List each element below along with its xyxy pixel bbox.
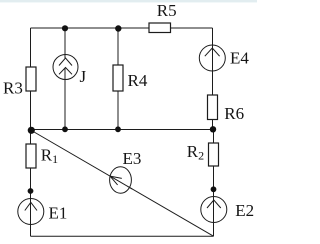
svg-text:E1: E1 [49,203,68,222]
resistor R1 [26,144,36,168]
svg-text:E2: E2 [235,201,254,220]
wire left lower branch [30,130,32,236]
wire left side [30,28,32,130]
wire right side [212,28,214,130]
source E3 [110,167,133,193]
resistor R5 [149,23,171,33]
wire top bus [31,27,213,29]
resistor R6 [208,95,218,120]
node R4 bottom junction [115,126,121,132]
svg-text:R6: R6 [224,104,244,123]
node A left bus junction [28,127,35,134]
svg-text:E4: E4 [230,49,249,68]
node J bottom junction [62,126,68,132]
wire branch R4 [117,28,119,130]
svg-text:E3: E3 [123,149,142,168]
svg-text:R3: R3 [3,79,23,98]
wire bottom bus [31,235,214,237]
svg-text:R5: R5 [157,1,177,20]
wire branch J [64,28,66,130]
node right bus junction [210,126,216,132]
node top R4 junction [115,25,121,31]
resistor R3 [26,67,36,91]
wire middle bus [31,129,214,131]
source E1 [18,199,44,225]
node E2 top junction [211,186,217,192]
svg-text:J: J [80,67,87,86]
svg-text:R4: R4 [128,71,148,90]
resistor R4 [113,65,123,91]
resistor R2 [209,143,219,166]
node top J junction [62,25,68,31]
wire diagonal E3 branch [32,131,214,237]
source E2 [201,197,227,223]
current source J [53,55,78,80]
node E1 top junction [28,188,34,194]
wire right lower branch [213,130,215,236]
source E4 [199,45,225,71]
